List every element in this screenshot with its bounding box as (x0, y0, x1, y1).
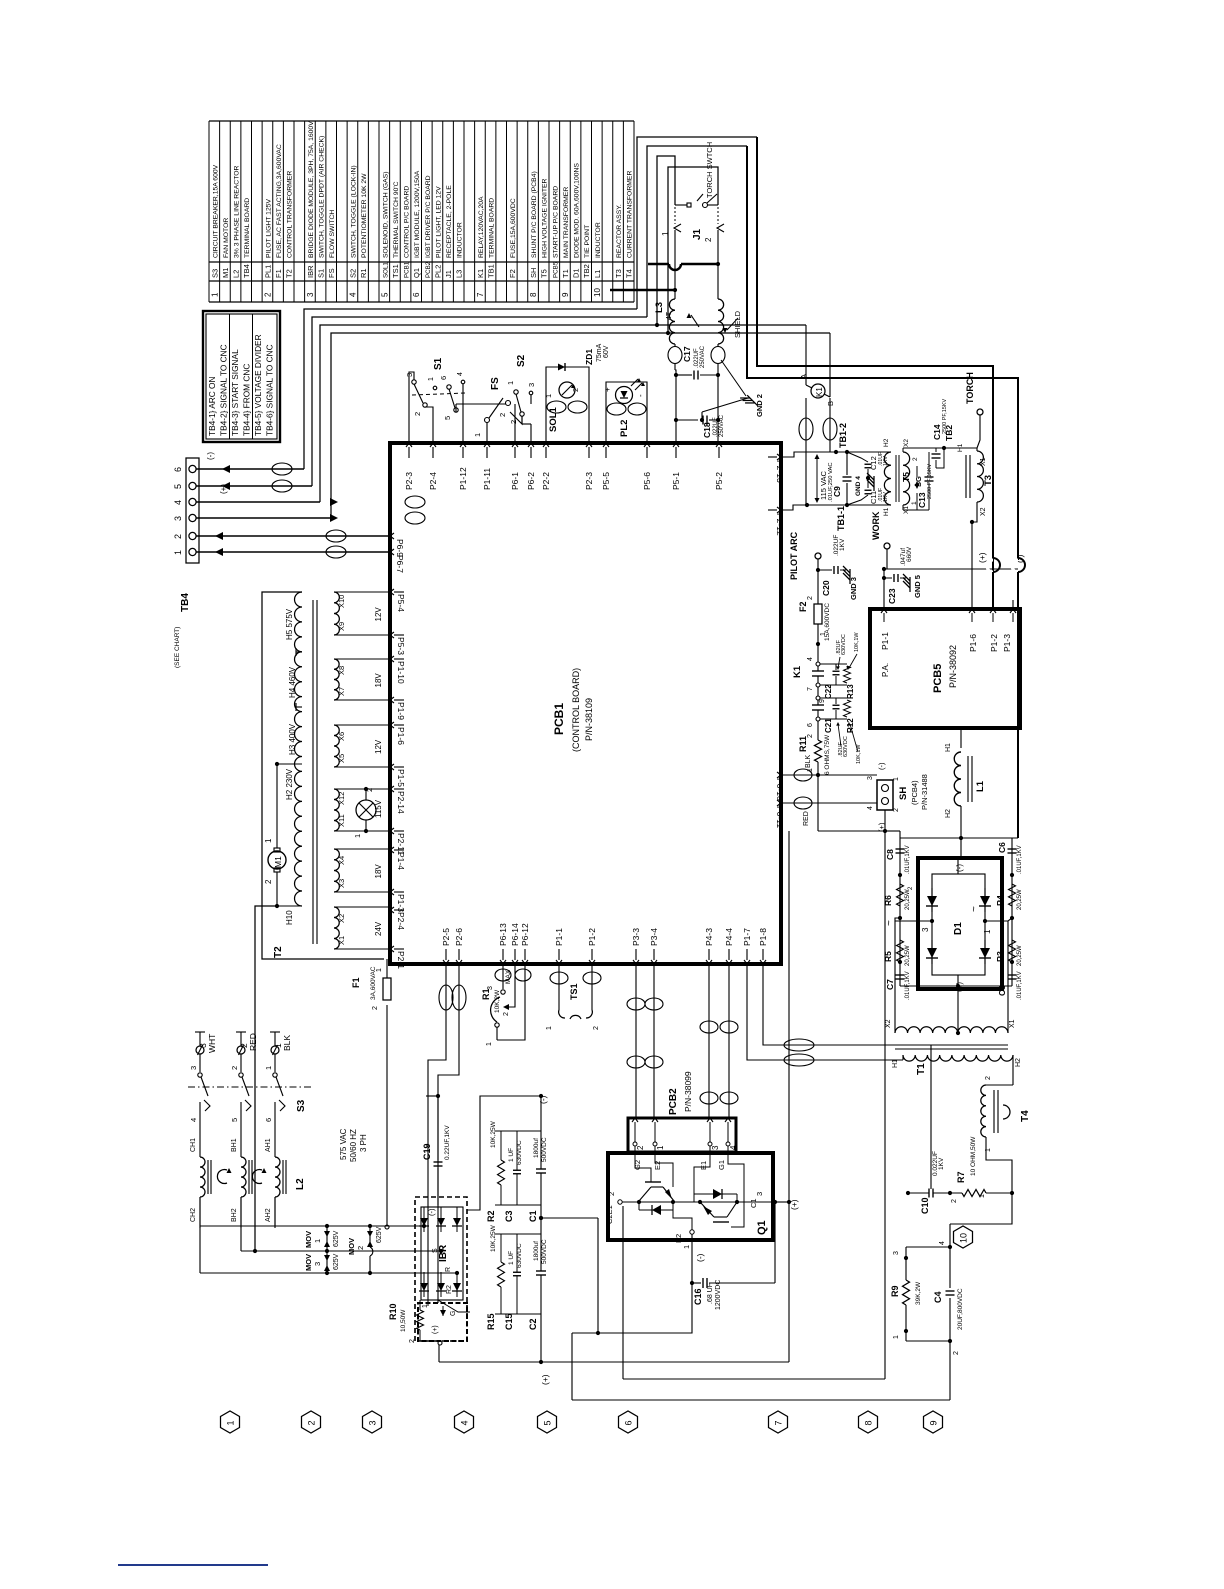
svg-text:GND 3: GND 3 (849, 577, 858, 600)
PCB1 pin P2-2 (543, 443, 549, 447)
svg-text:H2: H2 (1015, 1058, 1022, 1067)
terminal TB1-2 (834, 450, 838, 454)
svg-text:3: 3 (173, 516, 183, 521)
capacitor C12 (847, 452, 868, 462)
PCB1 pin P6-9 (390, 533, 394, 539)
svg-text:S3: S3 (210, 269, 219, 278)
svg-text:115 VAC: 115 VAC (819, 471, 828, 500)
svg-text:2: 2 (173, 534, 183, 539)
svg-text:H5 575V: H5 575V (285, 608, 294, 640)
svg-text:MOV: MOV (304, 1231, 313, 1248)
PCB1 pin P6-1 (512, 443, 518, 447)
svg-text:12V: 12V (374, 607, 383, 622)
solenoid SOL1 (546, 367, 589, 443)
svg-text:P3-3: P3-3 (631, 928, 641, 946)
MOV bus (200, 1225, 424, 1227)
svg-text:Q1: Q1 (756, 1220, 768, 1235)
PCB1 pin P6-13 (500, 960, 506, 964)
svg-text:C17: C17 (682, 346, 692, 362)
svg-text:D1: D1 (953, 922, 964, 935)
wire IBR (+) output (438, 1345, 440, 1362)
svg-text:TS1: TS1 (569, 983, 579, 1000)
main transformer T1 secondary (894, 921, 896, 1033)
wire H10 down (255, 906, 277, 1249)
PCB1 pin P2-4 (430, 443, 436, 447)
svg-text:(+): (+) (955, 982, 964, 992)
wire (+) to P1-2 (992, 572, 994, 609)
capacitor C19 (436, 1094, 440, 1098)
tie point TB2 (942, 446, 946, 450)
svg-text:1 UF: 1 UF (508, 1251, 515, 1265)
svg-text:10,50W: 10,50W (400, 1309, 407, 1332)
PCB5 pin P1-1 (881, 609, 887, 613)
terminal board TB4 (186, 458, 199, 563)
diode D1 top-right (984, 888, 986, 912)
wire bus 1400 (572, 1399, 950, 1401)
pilot arc terminal (815, 553, 821, 559)
svg-text:2: 2 (704, 237, 713, 242)
T2 secondary X5-X6 12V (334, 725, 339, 767)
diode D1 top-left (931, 888, 933, 912)
wire bus 1379 (623, 1378, 885, 1380)
svg-text:TB4-1} ARC ON: TB4-1} ARC ON (207, 377, 217, 436)
svg-text:(PCB4): (PCB4) (910, 780, 919, 805)
capacitor C9 (846, 452, 848, 475)
svg-text:TERMINAL BOARD: TERMINAL BOARD (244, 198, 251, 258)
svg-text:L3: L3 (455, 270, 464, 278)
svg-text:C2E1: C2E1 (605, 1205, 614, 1224)
svg-text:4: 4 (348, 292, 357, 297)
IGBT 2 (694, 1146, 710, 1194)
PCB1 pin P5-6 (644, 443, 650, 447)
relay coil K1 (805, 325, 807, 385)
svg-text:1800uf: 1800uf (533, 1138, 540, 1158)
hex marker 7 (769, 1411, 788, 1433)
T2 secondary X3-X4 18V (334, 849, 339, 892)
svg-text:AH2: AH2 (265, 1208, 272, 1222)
T2 secondary X1-X2 24V (334, 907, 339, 949)
filter midpoint (540, 1205, 542, 1234)
svg-text:.01UF,1KV: .01UF,1KV (905, 971, 911, 1000)
svg-text:X1: X1 (980, 457, 987, 466)
svg-text:500VDC: 500VDC (541, 1239, 548, 1264)
wire K1 to TB1 (805, 398, 807, 505)
svg-text:SHUNT P/C BOARD (PCB4): SHUNT P/C BOARD (PCB4) (531, 171, 538, 258)
svg-text:S3: S3 (296, 1099, 307, 1112)
svg-text:ZD1: ZD1 (584, 349, 594, 365)
svg-text:1: 1 (376, 968, 383, 972)
svg-text:20,25W: 20,25W (905, 889, 911, 910)
PCB1 pin P2-13 (777, 454, 781, 460)
svg-text:H3 400V: H3 400V (288, 723, 297, 755)
svg-text:P1-8: P1-8 (758, 928, 768, 946)
svg-text:L2: L2 (295, 1178, 306, 1190)
svg-text:2: 2 (409, 1339, 416, 1343)
svg-text:E2: E2 (674, 1234, 683, 1243)
svg-text:1: 1 (506, 381, 515, 385)
T2 secondary X11-X12 115V (334, 789, 339, 831)
svg-text:P1-12: P1-12 (458, 467, 468, 490)
T2 secondary X7-X8 18V (334, 659, 339, 700)
L2 arrows (217, 1170, 227, 1184)
svg-text:P1-1: P1-1 (880, 632, 890, 650)
svg-text:C10: C10 (920, 1197, 930, 1214)
svg-text:GND 5: GND 5 (913, 575, 922, 598)
svg-text:1: 1 (473, 433, 482, 437)
svg-text:MOV: MOV (304, 1254, 313, 1271)
shunt SH PCB4 (877, 780, 893, 810)
wire P4-4 to PCB2 (728, 964, 730, 1118)
diode Q1 right (694, 1193, 737, 1195)
wire R7 node down (950, 1193, 1012, 1224)
wire TB4-3 (196, 517, 331, 519)
svg-text:7: 7 (476, 292, 485, 297)
hex marker 2 (302, 1411, 321, 1433)
PCB1 pin P5-2 (716, 443, 722, 447)
svg-text:P2-3: P2-3 (584, 472, 594, 490)
svg-text:10: 10 (593, 288, 602, 297)
wire C10 riser (930, 1045, 932, 1189)
PCB1 pin P6-2 (528, 443, 534, 447)
PCB1 pin P2-11 (390, 828, 394, 834)
svg-text:2: 2 (807, 734, 814, 738)
svg-text:F2: F2 (798, 601, 808, 612)
svg-text:E2: E2 (653, 1161, 662, 1170)
svg-text:SH: SH (529, 268, 538, 278)
svg-text:PILOT LIGHT 125V: PILOT LIGHT 125V (265, 198, 272, 258)
svg-text:C22: C22 (824, 684, 833, 699)
wire TB4-6 (196, 468, 304, 470)
svg-text:75mA: 75mA (596, 343, 603, 362)
svg-text:P/N-38109: P/N-38109 (584, 698, 594, 741)
wire thick output (+) top run (757, 137, 993, 604)
svg-text:1: 1 (682, 1245, 691, 1249)
S1 linkage (412, 393, 466, 395)
snubber C8 R6 R5 C7 (899, 838, 901, 986)
svg-text:L1: L1 (975, 780, 986, 792)
svg-text:2: 2 (498, 413, 507, 417)
svg-text:R15: R15 (486, 1313, 496, 1330)
svg-text:2: 2 (356, 1246, 365, 1250)
wire (+) bus (439, 1361, 789, 1363)
svg-text:3: 3 (755, 1192, 764, 1196)
twisted pair SOL1 (547, 401, 566, 413)
svg-text:3: 3 (487, 986, 494, 990)
svg-text:WORK: WORK (871, 511, 881, 540)
PCB1 pin P1-6 (390, 722, 394, 728)
svg-text:.01UF,1KV: .01UF,1KV (905, 845, 911, 874)
svg-text:X7: X7 (337, 687, 346, 696)
svg-text:(-): (-) (695, 1253, 705, 1262)
svg-text:4: 4 (189, 1118, 198, 1122)
svg-text:X6: X6 (337, 732, 346, 741)
wire P2-13 to TB1-2 (781, 452, 847, 457)
svg-text:R13: R13 (846, 684, 855, 699)
resistor R7 (962, 1190, 986, 1197)
svg-text:P6-1: P6-1 (510, 472, 520, 490)
PCB1 pin P2-3 (586, 443, 592, 447)
IBR gate box (418, 1303, 467, 1341)
PCB1 pin P4-3 (706, 960, 712, 964)
svg-text:7: 7 (807, 687, 814, 691)
wire branch to J1 pin1 (674, 156, 676, 205)
svg-text:K1: K1 (476, 269, 485, 278)
svg-text:R2: R2 (446, 1285, 453, 1294)
svg-text:1 UF: 1 UF (508, 1148, 515, 1162)
svg-text:2: 2 (912, 457, 919, 461)
svg-text:1: 1 (486, 1042, 493, 1046)
svg-text:1: 1 (226, 1420, 236, 1425)
PCB1 pin P2-5 (443, 960, 449, 964)
S3 linkage (188, 1086, 313, 1088)
svg-text:(+): (+) (789, 1199, 799, 1210)
svg-text:C4: C4 (933, 1291, 943, 1303)
svg-text:7: 7 (774, 1420, 784, 1425)
svg-text:P5-4: P5-4 (396, 594, 406, 612)
svg-text:P6-14: P6-14 (510, 923, 520, 946)
svg-text:R7: R7 (956, 1171, 966, 1183)
svg-text:FAN MOTOR: FAN MOTOR (223, 218, 230, 258)
svg-text:PCB5: PCB5 (932, 664, 944, 693)
svg-text:T3: T3 (614, 269, 623, 278)
svg-text:S2: S2 (348, 269, 357, 278)
svg-text:TB4: TB4 (242, 264, 251, 278)
svg-text:3: 3 (189, 1066, 198, 1070)
svg-text:P2-13: P2-13 (775, 460, 785, 483)
PCB1 pin P5-5 (603, 443, 609, 447)
wire T3 X2 to P1-6 (972, 502, 977, 609)
svg-text:P1-9: P1-9 (396, 702, 406, 720)
svg-text:C3: C3 (504, 1210, 514, 1222)
svg-text:G: G (450, 1311, 457, 1316)
svg-text:P2-4: P2-4 (396, 912, 406, 930)
svg-text:INDUCTOR: INDUCTOR (457, 222, 464, 258)
PCB1 pin P1-2 (589, 960, 595, 964)
varistor MOV 3 (326, 1251, 328, 1273)
svg-text:P2-1: P2-1 (396, 951, 406, 969)
svg-text:THERMAL SWITCH 90'C: THERMAL SWITCH 90'C (393, 181, 400, 258)
svg-text:PILOT ARC: PILOT ARC (789, 531, 799, 580)
jog bump (+) (987, 560, 993, 572)
svg-text:P5-5: P5-5 (601, 472, 611, 490)
svg-text:J1: J1 (692, 228, 703, 240)
svg-text:FUSE, AC FAST ACTING,3A,600VAC: FUSE, AC FAST ACTING,3A,600VAC (276, 144, 283, 258)
diode D1 bottom-right (984, 940, 986, 964)
svg-text:20UF,800VDC: 20UF,800VDC (957, 1288, 964, 1330)
capacitor C17 (676, 374, 692, 376)
svg-text:P5-2: P5-2 (714, 472, 724, 490)
PCB5 pin P1-6 (969, 609, 975, 613)
wire TB4-4 (196, 501, 320, 503)
svg-text:10K,25W: 10K,25W (490, 1224, 497, 1252)
bridge rectifier IBR (415, 1197, 467, 1341)
svg-text:X2: X2 (337, 914, 346, 923)
PCB1 pin P1-11 (484, 443, 490, 447)
PCB1 pin P3-3 (633, 960, 639, 964)
svg-text:HIGH VOLTAGE IGNITER: HIGH VOLTAGE IGNITER (542, 178, 549, 258)
fan motor M1 (268, 851, 286, 869)
hex marker 1 (221, 1411, 240, 1433)
svg-text:.68 UF: .68 UF (707, 1283, 714, 1304)
svg-text:P5-3: P5-3 (396, 637, 406, 655)
snubber C22 R13 (820, 663, 847, 665)
PCB1 pin P5-1 (673, 443, 679, 447)
hex marker 9 (924, 1411, 943, 1433)
svg-text:C13: C13 (917, 492, 927, 508)
svg-text:2: 2 (985, 1076, 992, 1080)
svg-text:PILOT LIGHT, LED 12V: PILOT LIGHT, LED 12V (435, 186, 442, 258)
svg-text:K1: K1 (792, 665, 803, 678)
snubber rail bottom (900, 985, 1012, 987)
diode Q1 left (638, 1202, 640, 1210)
svg-text:RED: RED (248, 1033, 258, 1051)
svg-text:TERMINAL BOARD: TERMINAL BOARD (489, 198, 496, 258)
svg-text:2: 2 (413, 412, 422, 416)
svg-text:C19: C19 (422, 1143, 432, 1160)
svg-text:PCB1: PCB1 (404, 261, 411, 278)
svg-text:RELAY,120VAC,20A: RELAY,120VAC,20A (478, 196, 485, 258)
capacitor C20 (816, 568, 820, 572)
wire IBR gate from P2-5 P2-6 (428, 964, 446, 1303)
svg-text:1KV: 1KV (938, 1157, 945, 1170)
svg-text:CONTROL TRANSFORMER: CONTROL TRANSFORMER (287, 171, 294, 258)
PCB1 pin P2-6 (456, 960, 462, 964)
svg-text:PL2: PL2 (619, 420, 630, 437)
svg-text:5: 5 (443, 416, 452, 420)
revision line (118, 1564, 268, 1566)
svg-text:250VAC: 250VAC (719, 414, 725, 437)
svg-text:P3-4: P3-4 (649, 928, 659, 946)
svg-text:R9: R9 (890, 1285, 900, 1297)
wire P3-4 to PCB2 (653, 964, 655, 1118)
svg-text:TB1: TB1 (487, 264, 496, 278)
svg-text:T4: T4 (625, 269, 634, 278)
svg-text:P/N-38099: P/N-38099 (683, 1071, 693, 1112)
filter cell 1: R2 C3 C1 (495, 1130, 541, 1132)
svg-text:1: 1 (264, 838, 273, 843)
svg-text:CURRENT TRANSFORMER: CURRENT TRANSFORMER (627, 171, 634, 258)
wire IBR (-) output (437, 1160, 439, 1207)
svg-text:D1: D1 (572, 268, 581, 278)
svg-text:1200VDC: 1200VDC (715, 1280, 722, 1310)
control board PCB1 (390, 443, 781, 964)
svg-text:PCB2: PCB2 (668, 1088, 679, 1115)
svg-text:CH1: CH1 (190, 1138, 197, 1152)
svg-text:2: 2 (571, 388, 580, 392)
svg-text:(-): (-) (206, 452, 215, 460)
svg-text:8: 8 (864, 1420, 874, 1425)
svg-text:F1: F1 (274, 269, 283, 278)
twisted pair TB4-4/3 (405, 496, 425, 508)
svg-text:1: 1 (979, 1194, 986, 1198)
svg-text:5: 5 (380, 292, 389, 297)
svg-text:FS: FS (327, 268, 336, 278)
svg-text:H1: H1 (945, 743, 952, 752)
svg-text:P2-2: P2-2 (541, 472, 551, 490)
PCB1 pin P5-3 (390, 632, 394, 638)
svg-text:F2: F2 (508, 269, 517, 278)
svg-text:POTENTIOMETER 10K 2W: POTENTIOMETER 10K 2W (361, 173, 368, 258)
svg-text:1800uf: 1800uf (533, 1241, 540, 1261)
wire thick output (-) top run (747, 146, 1018, 560)
svg-text:C1: C1 (749, 1198, 758, 1208)
twisted pair TB4-2/1 (326, 530, 346, 542)
svg-text:2: 2 (264, 879, 273, 884)
wire T1 H2 (1012, 1055, 1014, 1085)
twisted pair TB4-6/5 (272, 463, 292, 475)
hex marker 5 (538, 1411, 557, 1433)
hex marker 3 (363, 1411, 382, 1433)
svg-text:625V: 625V (333, 1253, 340, 1270)
svg-text:2: 2 (951, 1199, 958, 1203)
wire (-) down right side (1017, 572, 1019, 838)
wire E2 to bus (572, 1283, 692, 1333)
svg-text:P4-3: P4-3 (704, 928, 714, 946)
svg-text:T2: T2 (273, 946, 284, 958)
svg-text:P5-1: P5-1 (671, 472, 681, 490)
svg-text:1: 1 (820, 632, 827, 636)
wire work line (884, 568, 1018, 570)
svg-text:4: 4 (729, 1145, 738, 1150)
svg-text:MOV: MOV (347, 1238, 356, 1255)
wire P6-11 RED (781, 802, 877, 804)
PCB5 pin P1-2 (990, 609, 996, 613)
SOL1 coil symbol (559, 382, 575, 398)
hex marker 4 (455, 1411, 474, 1433)
svg-text:TB4-3} START SIGNAL: TB4-3} START SIGNAL (230, 349, 240, 436)
svg-text:P1-11: P1-11 (482, 468, 492, 490)
wire F1 drop (386, 1005, 388, 1226)
svg-text:1: 1 (173, 550, 183, 555)
svg-text:2: 2 (593, 1026, 600, 1030)
svg-text:1: 1 (264, 1066, 273, 1070)
svg-text:9: 9 (929, 1420, 939, 1425)
svg-text:IGBT MODULE, 1200V,150A: IGBT MODULE, 1200V,150A (414, 170, 421, 258)
svg-text:T1: T1 (561, 269, 570, 278)
svg-text:CH2: CH2 (190, 1208, 197, 1222)
capacitor C23 (884, 577, 892, 579)
wire D1 + output (957, 989, 959, 1033)
svg-text:X2: X2 (980, 507, 987, 516)
svg-text:2: 2 (263, 292, 272, 297)
svg-text:1: 1 (313, 1239, 322, 1243)
svg-text:250VAC: 250VAC (700, 345, 706, 368)
svg-text:.01UF,1KV: .01UF,1KV (1017, 971, 1023, 1000)
svg-text:S1: S1 (433, 357, 444, 370)
ground GND 4 (866, 476, 870, 480)
svg-text:50/60 HZ: 50/60 HZ (349, 1129, 358, 1162)
svg-text:SWITCH, TOGGLE DPDT (AIR CHECK: SWITCH, TOGGLE DPDT (AIR CHECK) (319, 136, 326, 258)
svg-text:H2: H2 (945, 809, 952, 818)
svg-text:(+): (+) (432, 1325, 439, 1334)
svg-text:SWITCH, TOGGLE (LOCK-IN): SWITCH, TOGGLE (LOCK-IN) (350, 165, 357, 258)
svg-text:START-UP P/C BOARD: START-UP P/C BOARD (552, 186, 559, 258)
snubber rail top (900, 837, 1018, 839)
svg-text:R2: R2 (486, 1210, 496, 1222)
phase 3 input (196, 1046, 204, 1054)
svg-text:P1-6: P1-6 (968, 634, 978, 652)
svg-text:P2-12: P2-12 (775, 513, 785, 536)
PCB1 pin P2-4 (390, 907, 394, 913)
svg-text:SOL1: SOL1 (548, 406, 559, 432)
svg-text:TORCH: TORCH (965, 372, 975, 404)
svg-text:8: 8 (529, 292, 538, 297)
svg-text:S1: S1 (317, 269, 326, 278)
svg-text:PCB2: PCB2 (425, 261, 432, 278)
svg-text:X3: X3 (337, 879, 346, 888)
svg-text:4: 4 (457, 372, 464, 376)
svg-text:(SEE CHART): (SEE CHART) (174, 627, 181, 668)
